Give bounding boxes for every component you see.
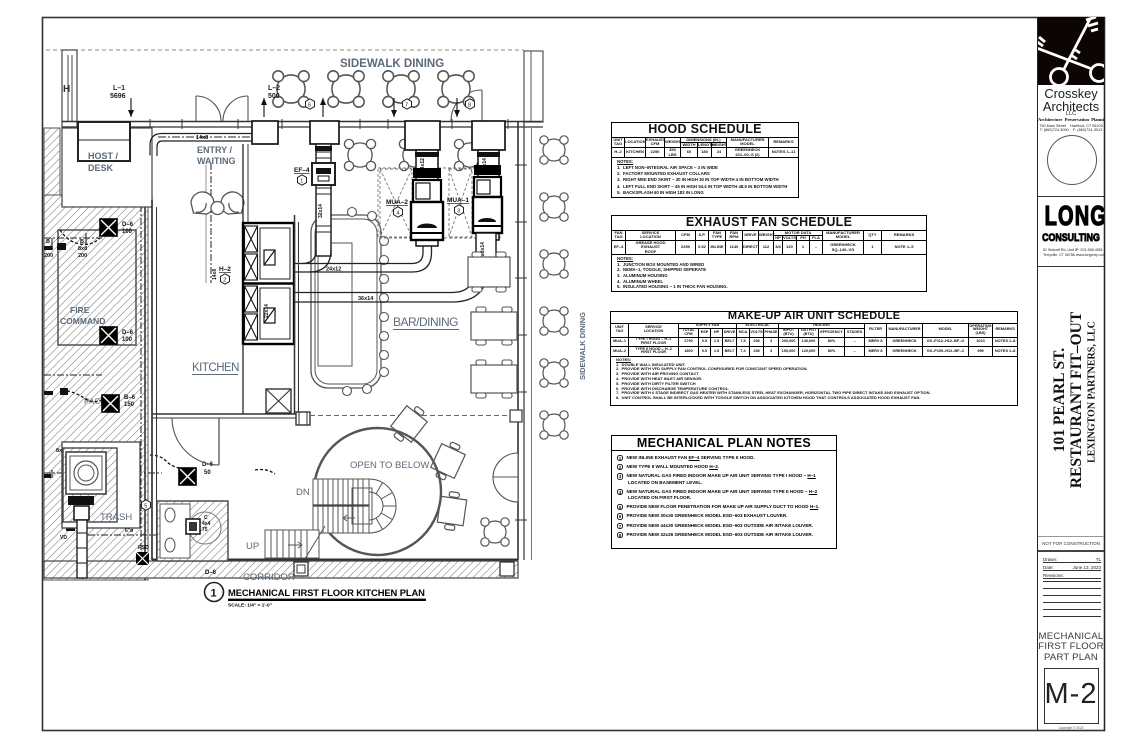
- svg-text:4: 4: [396, 211, 399, 217]
- svg-text:D–6: D–6: [122, 222, 134, 228]
- svg-text:L–1: L–1: [113, 85, 125, 92]
- svg-text:200: 200: [78, 253, 87, 259]
- svg-text:8x8: 8x8: [78, 246, 87, 252]
- svg-text:6: 6: [308, 103, 311, 109]
- svg-text:50: 50: [204, 470, 211, 476]
- svg-text:5696: 5696: [110, 93, 126, 100]
- svg-text:1: 1: [300, 179, 303, 185]
- svg-text:75: 75: [202, 527, 208, 533]
- svg-text:1: 1: [211, 588, 217, 600]
- svg-text:D–6: D–6: [122, 330, 134, 336]
- svg-text:WAITING: WAITING: [197, 156, 236, 166]
- svg-text:3: 3: [457, 209, 460, 215]
- svg-text:SIDEWALK DINING: SIDEWALK DINING: [578, 312, 587, 380]
- svg-text:6"ø: 6"ø: [125, 528, 134, 534]
- svg-text:MECHANICAL FIRST FLOOR KITCHEN: MECHANICAL FIRST FLOOR KITCHEN PLAN: [228, 587, 425, 598]
- svg-text:OPEN TO BELOW: OPEN TO BELOW: [350, 460, 429, 471]
- svg-text:24x12: 24x12: [326, 267, 341, 273]
- svg-text:B: B: [46, 239, 50, 245]
- svg-text:14x8: 14x8: [196, 135, 208, 141]
- svg-text:150: 150: [124, 402, 135, 408]
- svg-text:SIDEWALK DINING: SIDEWALK DINING: [340, 58, 444, 70]
- svg-text:100: 100: [122, 229, 133, 235]
- svg-text:H: H: [63, 84, 70, 95]
- svg-text:5: 5: [144, 504, 147, 510]
- svg-text:L–2: L–2: [268, 85, 280, 92]
- svg-text:500: 500: [268, 93, 280, 100]
- svg-text:100: 100: [122, 337, 133, 343]
- svg-text:FIRE: FIRE: [70, 305, 90, 315]
- svg-text:UP: UP: [246, 541, 259, 552]
- svg-text:ENTRY /: ENTRY /: [197, 145, 233, 155]
- svg-text:VD: VD: [60, 535, 67, 541]
- svg-text:B–6: B–6: [124, 395, 136, 401]
- svg-text:BAR/DINING: BAR/DINING: [393, 315, 458, 329]
- svg-text:D–6: D–6: [205, 570, 217, 576]
- svg-text:MUA–1: MUA–1: [447, 197, 469, 204]
- svg-text:36x14: 36x14: [358, 296, 374, 302]
- svg-text:EF–4: EF–4: [294, 167, 310, 174]
- svg-text:H–2: H–2: [219, 266, 231, 273]
- svg-text:DN: DN: [296, 487, 310, 498]
- svg-text:FSD: FSD: [138, 545, 149, 551]
- svg-text:DESK: DESK: [88, 163, 114, 173]
- svg-text:CORRIDOR: CORRIDOR: [243, 572, 295, 583]
- svg-text:2: 2: [223, 278, 226, 284]
- svg-text:14x8: 14x8: [212, 269, 218, 280]
- svg-text:8: 8: [468, 103, 471, 109]
- svg-text:7: 7: [405, 103, 408, 109]
- svg-text:MUA–2: MUA–2: [386, 199, 408, 206]
- svg-text:22x14: 22x14: [264, 304, 270, 318]
- svg-text:KITCHEN: KITCHEN: [192, 362, 239, 374]
- svg-text:TRASH: TRASH: [100, 512, 132, 523]
- svg-text:200: 200: [44, 253, 53, 259]
- svg-text:HOST /: HOST /: [88, 151, 119, 161]
- svg-text:SCALE: 1/4" = 1'-0": SCALE: 1/4" = 1'-0": [228, 603, 272, 609]
- svg-text:32x14: 32x14: [318, 204, 324, 218]
- svg-text:COMMAND: COMMAND: [60, 316, 105, 326]
